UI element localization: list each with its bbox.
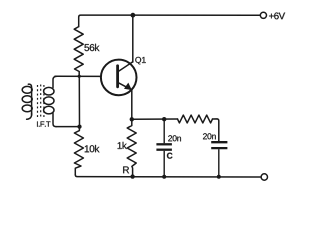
capacitor C1 20n	[156, 119, 172, 176]
transformer IFT core (dashed)	[38, 85, 44, 119]
resistor filter horizontal	[178, 115, 213, 123]
label 56k	[84, 44, 99, 51]
node collector-rail junction	[131, 13, 136, 18]
wire bottom rail	[75, 175, 261, 177]
node C1-rail junction	[162, 175, 166, 179]
resistor 56k	[74, 27, 83, 77]
transistor Q1	[101, 60, 137, 96]
resistor 1k	[127, 119, 136, 176]
wire bias column	[78, 76, 80, 126]
transformer IFT right winding	[44, 76, 57, 126]
resistor 10k	[74, 127, 83, 175]
node C2-rail junction	[217, 175, 221, 179]
wire collector	[132, 15, 134, 62]
label R	[123, 166, 129, 173]
node C1 top junction	[162, 117, 166, 121]
label 20n (C2)	[203, 133, 216, 139]
wire base	[55, 75, 101, 77]
label 1k	[118, 142, 127, 149]
node 1k-rail junction	[130, 174, 134, 178]
wire emitter to filter	[132, 118, 178, 120]
label 10k	[85, 145, 100, 152]
node emitter junction	[130, 117, 134, 121]
wire top supply rail	[79, 15, 261, 27]
terminal output	[261, 174, 267, 180]
node base junction	[78, 75, 81, 78]
capacitor C2 20n	[211, 142, 227, 177]
label 20n (C1)	[168, 135, 181, 141]
wire filter to C2	[213, 119, 219, 141]
wire IFT bottom	[56, 126, 80, 128]
transformer IFT left winding	[22, 84, 32, 119]
label Q1	[135, 57, 145, 65]
label +6V	[269, 12, 285, 19]
label C	[167, 153, 173, 159]
label I.F.T	[37, 121, 50, 126]
terminal +6V	[260, 12, 266, 18]
node bias-IFT junction	[77, 125, 81, 129]
wire emitter	[131, 90, 133, 119]
